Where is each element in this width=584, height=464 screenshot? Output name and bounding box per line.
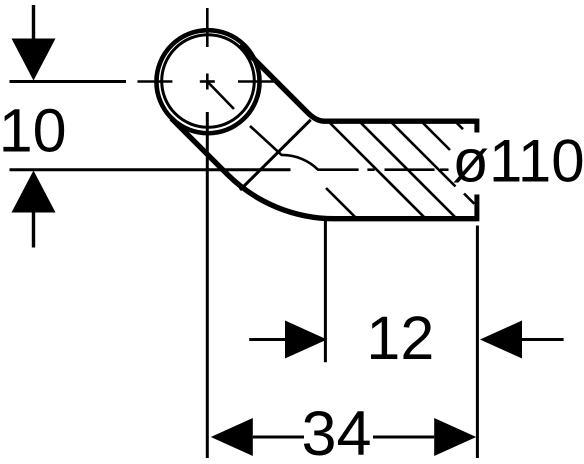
axis diagonal inside socket: [207, 82, 234, 110]
hatch line 5 stub: [455, 121, 463, 129]
hatch line 3 lower: [464, 194, 474, 204]
pipe top edge: tangent diagonal, bend, horizontal: [240, 45, 477, 121]
vertical centerline top segment: [206, 8, 209, 47]
centerline right segment of socket: [238, 80, 278, 83]
12 dim right arrow tail: [522, 338, 564, 341]
34 dim right arrowhead: [434, 418, 476, 456]
svg-text:34: 34: [302, 399, 372, 464]
axis long dash: [385, 168, 435, 171]
hatch line 3 upper: [390, 121, 455, 186]
extension line middle (12 dim): [324, 217, 327, 362]
svg-text:10: 10: [0, 97, 67, 165]
axis dot 1: [367, 168, 374, 171]
svg-text:12: 12: [366, 304, 434, 372]
svg-text:ø110: ø110: [452, 128, 584, 195]
12 dim right arrowhead: [480, 321, 522, 359]
34 dim left arrowhead: [211, 418, 253, 456]
34 dim line right part: [373, 436, 434, 439]
12 dim left arrow tail: [249, 338, 285, 341]
section cut edge below axis: [326, 188, 357, 219]
hatch line 4: [421, 121, 450, 150]
dimension line lower (10, pipe centerline level): [10, 168, 291, 171]
extension line right: [476, 226, 479, 459]
hatch line 2: [359, 121, 457, 219]
axis bend solid segment with arc: [250, 126, 359, 170]
arrow up (10 dim, lower): [12, 171, 56, 248]
arrow down (10 dim, upper): [12, 5, 56, 81]
socket outer ring: [156, 30, 259, 133]
socket inner circle: [162, 35, 255, 128]
center cross vertical: [206, 74, 209, 90]
center cross horizontal: [200, 80, 215, 83]
12 dim left arrowhead: [285, 321, 327, 359]
dimension line upper (10, at socket axis level): [10, 80, 127, 83]
34 dim line left part: [253, 436, 304, 439]
pipe bottom edge: tangent diagonal, bend arc, horizontal: [171, 118, 476, 218]
socket depth cut line: [240, 120, 311, 190]
pipe end tick upper: [474, 119, 479, 133]
centerline left segment of socket: [138, 80, 173, 83]
axis dot 2: [440, 168, 449, 171]
pipe end tick lower: [474, 195, 479, 222]
vertical centerline / 34 extension line left: [206, 112, 209, 458]
hatch line 1: [328, 121, 426, 219]
